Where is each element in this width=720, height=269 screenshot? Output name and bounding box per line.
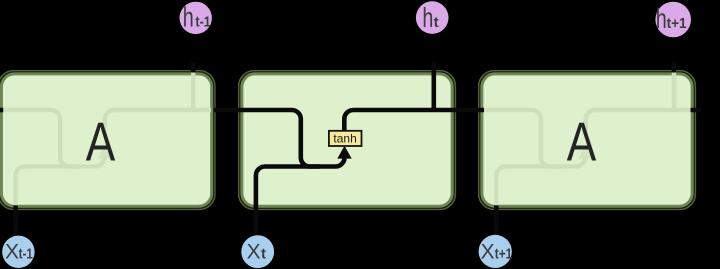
node h_t+1 circle — [655, 2, 691, 38]
faint internal wires of right cell — [484, 71, 692, 206]
svg-text:t+1: t+1 — [667, 15, 687, 32]
wire from x_t input — [256, 157, 345, 237]
svg-text:h: h — [422, 2, 433, 33]
node x_t+1 circle — [479, 235, 512, 268]
svg-text:t-1: t-1 — [195, 14, 210, 31]
faint internal wires of left cell — [4, 71, 212, 206]
cell box A t+1 (right) — [479, 71, 696, 209]
wire connector right cell exit to off-screen — [691, 108, 702, 113]
svg-text:t-1: t-1 — [19, 245, 33, 262]
cell box A t (middle) — [239, 71, 456, 209]
svg-text:t: t — [261, 245, 266, 262]
middle cell black wires — [0, 62, 701, 237]
arrowhead into tanh — [337, 146, 351, 159]
svg-text:A: A — [567, 111, 597, 173]
svg-text:t: t — [434, 14, 439, 31]
svg-text:X: X — [5, 240, 19, 263]
wire branch up to h_t — [431, 62, 436, 112]
svg-text:h: h — [183, 2, 194, 33]
svg-text:X: X — [247, 240, 261, 263]
wire connector from left screen edge into left cell — [0, 108, 3, 113]
svg-text:tanh: tanh — [333, 131, 356, 145]
wire connector x_t-1 up into left cell — [13, 205, 18, 236]
node h_t circle — [416, 1, 449, 34]
node x_t-1 circle — [2, 236, 34, 268]
wire recurrent-in from left cell — [214, 110, 320, 167]
svg-text:A: A — [86, 111, 116, 173]
wire stub h_t+1 above right cell — [671, 62, 676, 73]
svg-text:h: h — [656, 3, 667, 34]
tanh activation box — [329, 131, 362, 146]
cell box A t-1 (left) — [0, 71, 215, 209]
wire tanh output to h_t and next cell — [344, 110, 484, 131]
wire stub h_t-1 above left cell — [191, 62, 196, 73]
node h_t-1 circle — [180, 2, 212, 34]
svg-text:X: X — [481, 241, 495, 264]
svg-text:t+1: t+1 — [495, 246, 513, 263]
node x_t circle — [241, 235, 274, 268]
wire connector x_t+1 up into right cell — [494, 205, 499, 236]
